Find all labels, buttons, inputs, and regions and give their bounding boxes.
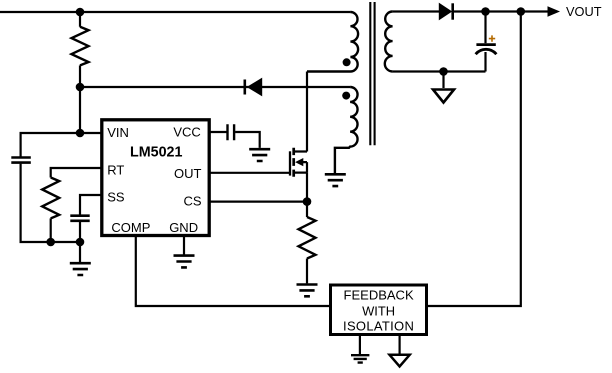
svg-text:VIN: VIN bbox=[107, 125, 129, 140]
capacitor C3 VCC bypass bbox=[209, 131, 226, 133]
ground: analog ground below SS junction bbox=[79, 242, 81, 263]
node: output cap junction bbox=[481, 7, 490, 16]
wire: source to CS node bbox=[306, 173, 308, 202]
svg-text:GND: GND bbox=[169, 220, 198, 235]
svg-text:VOUT: VOUT bbox=[566, 4, 602, 19]
ground: VCC bypass bbox=[249, 149, 270, 161]
feedback block box bbox=[331, 285, 427, 335]
transformer T1 aux winding bbox=[335, 87, 358, 173]
VOUT arrow bbox=[548, 6, 561, 16]
svg-text:COMP: COMP bbox=[111, 220, 150, 235]
wire: input top rail bbox=[0, 11, 350, 13]
ground: secondary (open triangle) bbox=[442, 72, 444, 89]
wire: VIN left branch bbox=[21, 133, 80, 157]
svg-text:FEEDBACK: FEEDBACK bbox=[344, 288, 414, 303]
capacitor C4 output electrolytic bbox=[484, 12, 486, 44]
ground: feedback secondary-side (open triangle) bbox=[399, 334, 401, 354]
wire: COMP to feedback block bbox=[136, 235, 329, 306]
node: SS ground junction bbox=[76, 238, 85, 247]
ground: sense resistor bbox=[297, 285, 318, 297]
wire: VIN to IC pin bbox=[80, 132, 101, 134]
T1 primary phase dot bbox=[343, 58, 351, 66]
transformer T1 core bbox=[370, 2, 374, 145]
node: secondary ground junction bbox=[439, 67, 448, 76]
svg-text:LM5021: LM5021 bbox=[130, 144, 182, 160]
wire: VIN drop bbox=[79, 87, 81, 133]
node: RT ground junction bbox=[46, 238, 55, 247]
svg-text:OUT: OUT bbox=[174, 166, 202, 181]
node: feedback tap junction bbox=[517, 7, 526, 16]
ground: IC GND pin bbox=[183, 235, 185, 255]
wire: OUT pin to gate bbox=[209, 172, 289, 174]
wire: C1 bottom to ground rail bbox=[21, 164, 80, 242]
wire: secondary return bbox=[393, 70, 486, 72]
T1 aux phase dot bbox=[342, 92, 350, 100]
op-amp/controller U1 LM5021 box bbox=[102, 120, 209, 236]
capacitor C1 input bbox=[11, 158, 31, 163]
wire: CS pin bbox=[209, 201, 307, 203]
wire: bias rail to aux winding bbox=[80, 86, 350, 88]
svg-text:VCC: VCC bbox=[173, 125, 200, 140]
wire: secondary top lead bbox=[393, 10, 440, 12]
transistor Q1 NMOS bbox=[290, 148, 307, 177]
node: top rail junction bbox=[76, 8, 85, 17]
capacitor C2 on SS pin bbox=[80, 195, 101, 215]
transformer T1 secondary winding bbox=[385, 12, 393, 72]
resistor R2 on RT pin bbox=[51, 168, 101, 178]
node: VIN junction bbox=[76, 129, 85, 138]
svg-text:SS: SS bbox=[107, 190, 125, 205]
wire: drain to primary winding bbox=[306, 72, 308, 152]
resistor R1 startup bbox=[79, 12, 81, 27]
diode D2 bias rectifier (cathode left) bbox=[245, 78, 262, 97]
wire: feedback tap drop bbox=[428, 12, 521, 307]
transformer T1 primary winding bbox=[307, 12, 358, 72]
wire: output rail to VOUT bbox=[453, 10, 548, 12]
node: CS junction bbox=[303, 197, 312, 206]
svg-text:CS: CS bbox=[183, 193, 201, 208]
svg-text:ISOLATION: ISOLATION bbox=[343, 319, 414, 334]
node: bias diode junction bbox=[76, 83, 85, 92]
ground: aux winding return bbox=[325, 174, 346, 186]
diode D1 output rectifier bbox=[439, 3, 452, 19]
C4 plus sign bbox=[489, 35, 495, 41]
ground: feedback primary-side bbox=[359, 334, 361, 355]
svg-text:WITH: WITH bbox=[362, 304, 395, 319]
svg-text:RT: RT bbox=[107, 163, 124, 178]
resistor R3 current sense bbox=[306, 202, 308, 217]
